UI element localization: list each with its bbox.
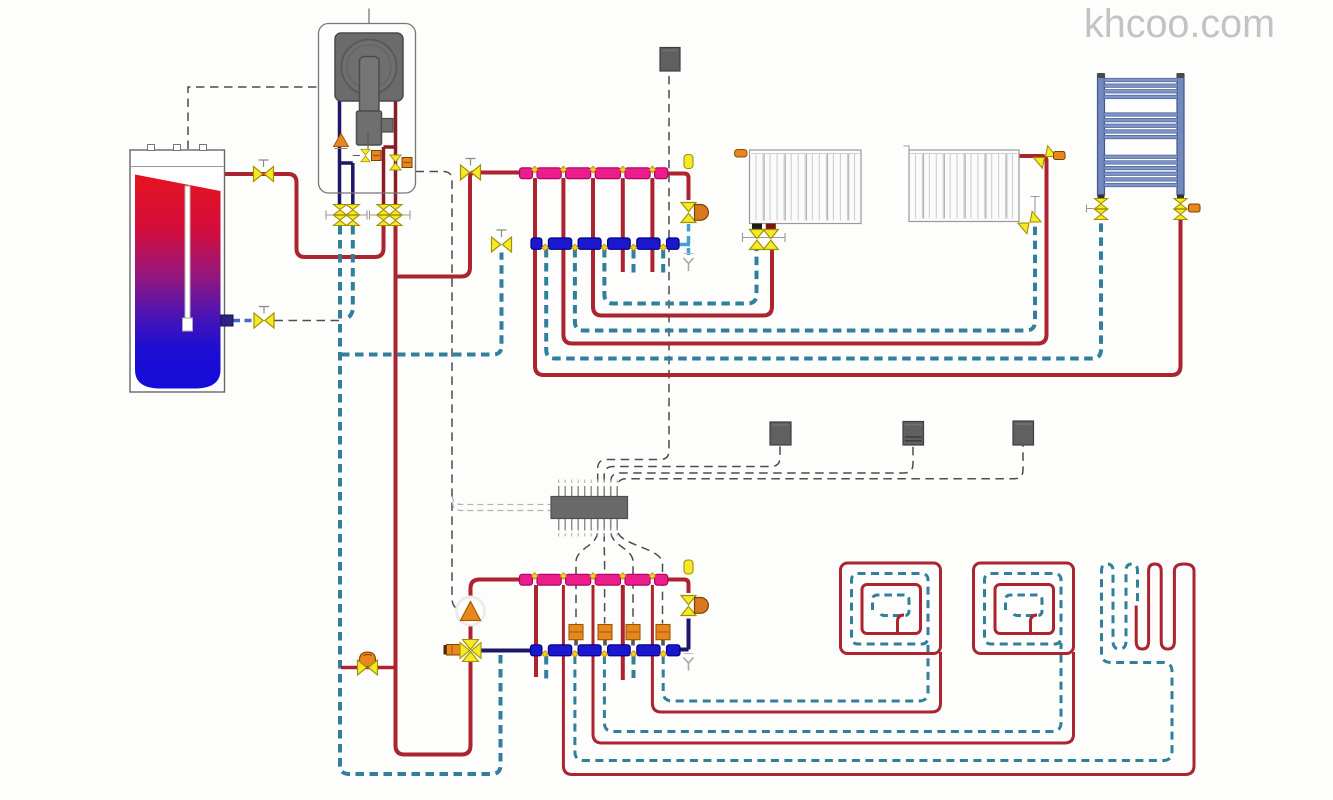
boiler gas valve with actuator (353, 132, 381, 162)
pipe: floor loop 3 return serpentine (teal dashed) (575, 564, 1172, 761)
pipe: return manifold right stub (light blue) (679, 243, 691, 247)
wire: controller to actuator 3 (611, 519, 633, 624)
radiator 1 thermostatic head (orange) (735, 150, 748, 158)
radiator 2 top-left bracket (904, 146, 910, 152)
pipe: upper manifold spare return stubs (teal dashed) (634, 250, 664, 276)
pipe: second boiler return drop (teal dashed) (344, 226, 353, 320)
wire: controller to actuator 2 (603, 519, 605, 624)
room thermostat 3 (1013, 421, 1034, 445)
boiler cabinet outline (319, 24, 416, 194)
tank dip tube (183, 186, 193, 331)
wire: controller to room thermostat 1 (604, 445, 780, 496)
valve: towel radiator return valve (1087, 195, 1108, 220)
manifold: floor heating return manifold (blue) (531, 645, 542, 656)
outdoor / top thermostat (660, 48, 680, 72)
pump P1 (floor circuit circulation pump) (457, 597, 485, 625)
junction connectors on floor supply manifold (531, 573, 538, 580)
valve: tank hot outlet isolation valve (254, 160, 274, 182)
manifold: radiator supply manifold (pink) (520, 168, 533, 179)
junction connectors on radiator supply manifold (531, 166, 538, 173)
valve: radiator 2 thermostatic valve with orange head (1034, 146, 1065, 168)
actuator 1 on floor return manifold (569, 625, 583, 646)
pipe: floor loop 2 return (teal dashed) (604, 643, 1061, 732)
air vent on floor supply manifold (684, 560, 693, 574)
pipe: bypass fill line (red) (341, 666, 394, 670)
junction connectors on radiator return manifold (542, 244, 549, 251)
pipe: bypass below valve (light blue) (687, 224, 691, 255)
valve: radiator circuit bypass valve with orange cap (681, 203, 708, 223)
pipe: boiler internal supply (dark red) (384, 99, 396, 204)
pipe: floor loop 2 supply (red) (593, 585, 1074, 743)
tank lower connection stub (navy) (221, 315, 233, 326)
valve: floor circuit bypass valve with orange cap (681, 596, 708, 616)
pipe: radiator supply manifold right end to air vent (red) (668, 174, 689, 201)
wire: boiler to controller and down to pump P1 (gray dashed) (416, 172, 461, 611)
pipe: floor loop 1 return (teal dashed) (663, 643, 928, 701)
actuator 4 on floor return manifold (656, 625, 670, 646)
pipe: branch to radiator manifold (red) (396, 173, 520, 277)
wire: tank lower valve to return line (gray dashed) (275, 320, 340, 322)
valve: system fill/bypass valve with orange bonnet (358, 652, 378, 675)
pipe: main return to boiler (teal dashed) (340, 226, 501, 774)
boiler diverter valve with actuator (390, 155, 412, 170)
valve pair under boiler (supply side) (370, 205, 411, 226)
manifold: radiator return manifold (blue) (531, 238, 542, 249)
valve: radiator 1 supply valve (red cap) (763, 224, 778, 250)
wire: controller to room thermostat 2 (611, 446, 913, 497)
pipe: return from radiator 2 (teal dashed) (575, 224, 1035, 331)
pipe: supply to towel radiator (red) (535, 178, 1181, 375)
pipe: hot water from tank to boiler (red) (224, 174, 384, 257)
valve: tank lower isolation valve (254, 307, 274, 329)
strainer below floor return manifold (gray Y) (684, 654, 694, 671)
pipe: floor circuit supply from mixing valve through pump (red) (471, 580, 520, 747)
room thermostat 2 (903, 422, 924, 446)
strainer below radiator manifold (gray Y) (684, 254, 694, 272)
valve: floor circuit mixing valve with thermostatic cap (444, 640, 482, 662)
wire: tank sensor to boiler (gray dashed) (188, 87, 318, 149)
room thermostat 1 (770, 422, 791, 445)
wire: controller to room thermostat 3 (617, 446, 1023, 497)
wire: controller to actuator 4 (617, 519, 662, 624)
pipe: floor manifold spare stubs (red) (536, 585, 623, 680)
valve: radiator 2 lockshield return valve (1018, 197, 1041, 234)
pipe: floor manifold spare return stubs (teal dashed) (546, 656, 633, 680)
hot water storage tank body (130, 145, 225, 393)
pipe: floor loop 1 supply (red) (652, 585, 940, 712)
towel radiator rails (1098, 73, 1185, 195)
floor heating loop 1 (spiral) (841, 563, 941, 654)
boiler burner symbol (orange triangle) (334, 134, 349, 149)
pipe: floor return manifold right end (navy) (679, 619, 689, 650)
boiler pump column (357, 57, 394, 146)
wiring centre / controller pins (559, 480, 618, 537)
wire: controller left input 2 (453, 502, 552, 511)
radiator 1 (panel radiator) (750, 150, 862, 224)
junction connectors on floor return manifold (542, 651, 549, 658)
pipe: floor supply manifold right end to air vent (red) (668, 580, 689, 594)
wire: controller to actuator 1 (576, 519, 598, 624)
pipe: return from radiator 1 (teal dashed) (604, 249, 756, 304)
pipe: boiler internal return (navy) (340, 99, 353, 204)
manifold: floor heating supply manifold (pink) (520, 574, 533, 585)
pipe: mixing valve to floor return manifold (navy) (480, 649, 531, 653)
valve: radiator manifold supply valve (461, 159, 481, 181)
valve: towel radiator supply valve with orange cap (1174, 195, 1200, 220)
wiring centre / controller body (551, 497, 628, 519)
pipe: upper manifold spare supply stubs (red) (623, 178, 653, 272)
valve: radiator 1 return valve (black cap) (743, 224, 786, 250)
watermark khcoo.com (1084, 2, 1275, 47)
valve pair under boiler (return side) (326, 205, 367, 226)
wire: controller to top thermostat (gray dashed) (598, 71, 669, 496)
pipe: supply to radiator 2 (red) (563, 156, 1046, 344)
pipe: tank lower connection (blue dashed) (233, 319, 254, 323)
floor heating loop 2 (spiral) (974, 563, 1074, 654)
pipe: return from towel radiator (teal dashed) (546, 219, 1101, 359)
pipe: floor loop 3 supply serpentine (red) (563, 564, 1194, 775)
pipe: radiator circuit return header (teal dashed) (341, 253, 502, 355)
actuator 3 on floor return manifold (626, 625, 640, 646)
towel radiator rungs (1104, 78, 1178, 186)
valve: radiator manifold return valve (492, 230, 512, 252)
air vent on radiator supply manifold (684, 155, 693, 169)
tank stratified water gradient (135, 175, 221, 389)
boiler heat-cell unit (dark gray) (335, 33, 403, 101)
radiator 2 (panel radiator) (909, 150, 1019, 222)
boiler flue stub (368, 9, 370, 25)
pipe: boiler supply riser down to floor circuit (red) (396, 226, 471, 755)
pipe: supply to radiator 1 (red) (593, 178, 772, 316)
actuator 2 on floor return manifold (598, 625, 612, 646)
wire: controller left input 1 (453, 496, 552, 505)
